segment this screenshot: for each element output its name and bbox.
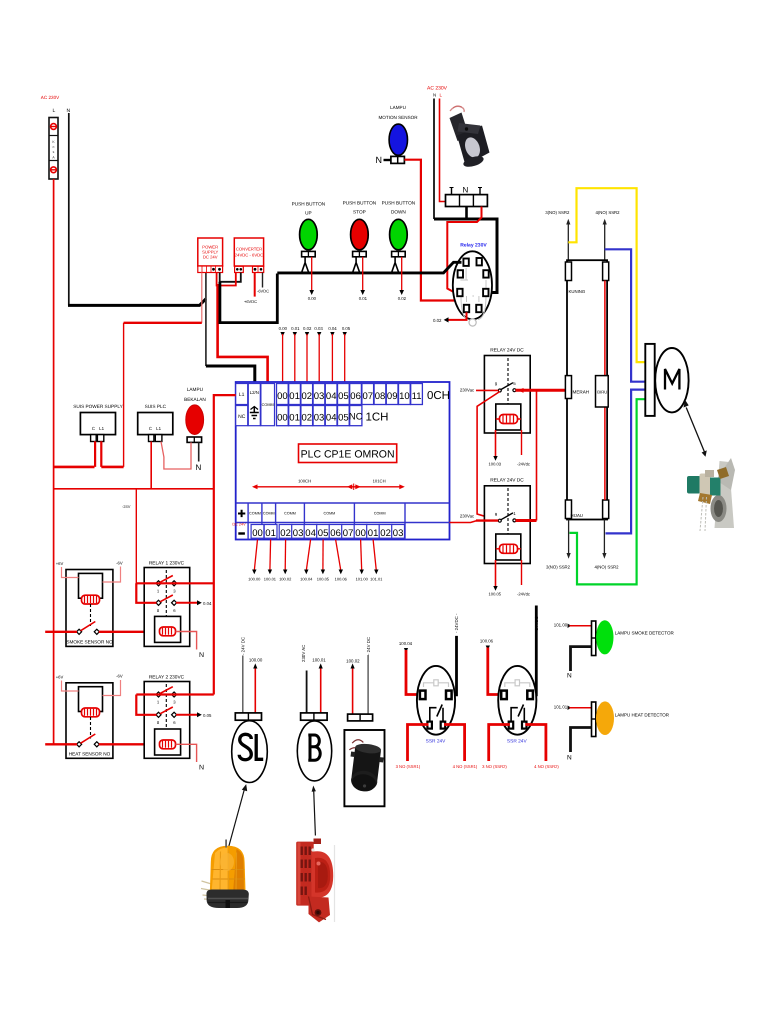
PLC output section grid bbox=[236, 503, 450, 540]
svg-text:1CH: 1CH bbox=[365, 411, 388, 423]
svg-text:3(NO) SSR2: 3(NO) SSR2 bbox=[546, 565, 571, 570]
svg-text:0.04: 0.04 bbox=[203, 601, 212, 606]
svg-text:100.06: 100.06 bbox=[480, 639, 494, 644]
PLC input cells row 0CH bbox=[277, 384, 451, 405]
wire converter -6VDC bbox=[262, 273, 264, 288]
wire relay2dc coil outputs bbox=[489, 560, 530, 597]
svg-text:N: N bbox=[567, 673, 572, 680]
svg-text:0.01: 0.01 bbox=[359, 296, 368, 301]
wire blue lower bbox=[606, 390, 646, 534]
svg-text:- 24VDC -: - 24VDC - bbox=[454, 613, 459, 633]
PLC COMM labels bottom bbox=[249, 512, 385, 516]
svg-text:06: 06 bbox=[330, 528, 341, 539]
wire bus y488 red bbox=[54, 442, 214, 489]
svg-text:LAMPU SMOKE DETECTOR: LAMPU SMOKE DETECTOR bbox=[615, 631, 675, 636]
buzzer photo bbox=[345, 739, 386, 793]
lampu heat detector bbox=[554, 701, 670, 761]
wire smoke 6V pink bbox=[62, 567, 121, 583]
svg-text:100.01: 100.01 bbox=[264, 577, 277, 582]
svg-text:11: 11 bbox=[412, 391, 422, 402]
motor M bbox=[655, 348, 688, 412]
SSR 24V unit 2 bbox=[480, 606, 539, 745]
svg-text:SMOKE SENSOR NO: SMOKE SENSOR NO bbox=[66, 640, 113, 645]
svg-text:DOWN: DOWN bbox=[391, 210, 406, 215]
svg-text:C: C bbox=[92, 426, 95, 431]
B lamp bbox=[297, 645, 331, 781]
svg-text:+6V: +6V bbox=[56, 675, 64, 680]
wire L red main left bus bbox=[53, 179, 55, 744]
wire yellow bbox=[568, 188, 645, 362]
wire 230vac to pin9 bbox=[476, 389, 498, 391]
svg-text:0.05: 0.05 bbox=[203, 713, 212, 718]
power supply DC 24V bbox=[198, 238, 223, 273]
wire relay1dc coil outputs bbox=[489, 430, 530, 467]
svg-text:-24Vdc: -24Vdc bbox=[517, 592, 530, 597]
svg-text:101.00: 101.00 bbox=[554, 623, 568, 628]
svg-text:RELAY 2 230VC: RELAY 2 230VC bbox=[149, 675, 185, 681]
wire heat row thick red bbox=[45, 743, 159, 745]
BIRU box bbox=[596, 376, 609, 407]
svg-text:100.00: 100.00 bbox=[248, 577, 261, 582]
svg-text:05: 05 bbox=[338, 412, 349, 423]
svg-text:COMM: COMM bbox=[262, 403, 274, 407]
svg-text:+6VDC: +6VDC bbox=[244, 299, 257, 304]
wire motion lamp to relay red bbox=[404, 160, 460, 301]
svg-text:03: 03 bbox=[314, 391, 325, 402]
svg-text:LAMPU HEAT DETECTOR: LAMPU HEAT DETECTOR bbox=[615, 713, 670, 718]
label 4(NO) SSR2 bottom bbox=[594, 520, 619, 570]
PLC name plate bbox=[299, 444, 397, 463]
arrow M to photo bbox=[684, 400, 707, 457]
svg-text:0.02: 0.02 bbox=[433, 318, 442, 323]
svg-text:3 NO (SSR2): 3 NO (SSR2) bbox=[482, 764, 507, 769]
svg-text:L1: L1 bbox=[99, 426, 104, 431]
svg-text:COMM: COMM bbox=[284, 512, 296, 516]
svg-text:03: 03 bbox=[393, 528, 404, 539]
RELAY 24V DC lower bbox=[484, 478, 530, 564]
PLC +/- cell bbox=[238, 510, 245, 534]
svg-text:HIJAU: HIJAU bbox=[571, 513, 583, 518]
svg-text:00: 00 bbox=[277, 412, 288, 423]
push button STOP bbox=[343, 201, 377, 302]
label 3(NO) SSR2 top bbox=[545, 210, 570, 260]
svg-text:07: 07 bbox=[343, 528, 354, 539]
terminal block motor bbox=[565, 260, 608, 519]
svg-text:02: 02 bbox=[380, 528, 391, 539]
svg-text:4 NO (SSR1): 4 NO (SSR1) bbox=[453, 764, 478, 769]
svg-text:101.01: 101.01 bbox=[554, 705, 568, 710]
svg-text:3 NO (SSR1): 3 NO (SSR1) bbox=[396, 764, 421, 769]
svg-text:PLC CP1E OMRON: PLC CP1E OMRON bbox=[301, 449, 395, 461]
svg-text:LAMPU: LAMPU bbox=[390, 105, 406, 110]
svg-text:-6VDC: -6VDC bbox=[257, 289, 269, 294]
svg-text:05: 05 bbox=[318, 528, 329, 539]
wire PS left terminal pink down bbox=[201, 273, 203, 323]
beacon photo bbox=[201, 840, 249, 909]
svg-text:00: 00 bbox=[252, 528, 263, 539]
PLC output cells bbox=[251, 525, 404, 539]
svg-text:DC 24V: DC 24V bbox=[203, 255, 218, 260]
svg-text:- 24V DC: - 24V DC bbox=[366, 637, 371, 655]
terminal motion lamp bbox=[391, 156, 405, 163]
wire strip to black bus bbox=[465, 207, 468, 220]
svg-text:RELAY 1 230VC: RELAY 1 230VC bbox=[149, 561, 185, 567]
motor terminal bar bbox=[645, 344, 654, 416]
svg-text:100.00: 100.00 bbox=[249, 658, 263, 663]
svg-text:-6V: -6V bbox=[116, 674, 123, 679]
svg-text:0.02: 0.02 bbox=[303, 326, 312, 331]
buzzer unit bbox=[344, 637, 384, 806]
svg-text:04: 04 bbox=[326, 412, 337, 423]
svg-text:PUSH BUTTON: PUSH BUTTON bbox=[343, 201, 377, 206]
svg-text:- 24VDC -: - 24VDC - bbox=[534, 613, 539, 633]
svg-text:00: 00 bbox=[277, 391, 288, 402]
svg-text:100.06: 100.06 bbox=[335, 577, 348, 582]
wire PLC outputs to labels bbox=[248, 540, 383, 582]
svg-text:SUIS PLC: SUIS PLC bbox=[145, 404, 167, 409]
PLC CP1E OMRON main box bbox=[236, 382, 450, 540]
svg-text:230Vac: 230Vac bbox=[460, 387, 475, 392]
node labels 0.00-0.05 PLC inputs bbox=[279, 326, 351, 337]
wire black bus to relay pin bbox=[434, 219, 497, 293]
svg-text:AC 230V: AC 230V bbox=[427, 86, 448, 92]
PLC terminal cell COMM bbox=[261, 384, 275, 426]
svg-text:100.03: 100.03 bbox=[489, 462, 502, 467]
RELAY 1 230VC bbox=[144, 561, 190, 647]
svg-text:RELAY 24V DC: RELAY 24V DC bbox=[490, 348, 524, 354]
svg-text:NC: NC bbox=[238, 414, 246, 420]
svg-text:100.05: 100.05 bbox=[489, 592, 502, 597]
svg-text:07: 07 bbox=[363, 391, 374, 402]
HEAT SENSOR NO bbox=[66, 683, 113, 759]
svg-text:05: 05 bbox=[338, 391, 349, 402]
PLC terminal cell L2/N with ground bbox=[248, 384, 260, 426]
svg-text:PUSH BUTTON: PUSH BUTTON bbox=[382, 201, 416, 206]
label LAMPU MOTION SENSOR bbox=[378, 105, 418, 120]
svg-text:4 NO (SSR2): 4 NO (SSR2) bbox=[534, 764, 559, 769]
wire blue upper bbox=[605, 249, 646, 381]
svg-text:COMM: COMM bbox=[249, 512, 261, 516]
svg-text:- 24V DC: - 24V DC bbox=[241, 637, 246, 655]
SUIS PLC bbox=[138, 404, 173, 442]
svg-text:-24Vdc: -24Vdc bbox=[517, 462, 530, 467]
svg-text:03: 03 bbox=[293, 528, 304, 539]
svg-text:N: N bbox=[463, 186, 469, 195]
wire suis plc to lampu red bbox=[161, 442, 191, 470]
svg-text:+6V: +6V bbox=[56, 561, 64, 566]
LAMPU BEKALAN bbox=[184, 387, 206, 442]
wire lampu bekalan N black bbox=[198, 442, 200, 461]
svg-text:0.02: 0.02 bbox=[398, 296, 407, 301]
PLC input cells row 1CH bbox=[277, 406, 389, 426]
motor photo bbox=[687, 458, 735, 531]
SSR 24V unit 1 bbox=[399, 613, 459, 745]
svg-text:0.01: 0.01 bbox=[291, 326, 300, 331]
svg-text:09: 09 bbox=[387, 391, 398, 402]
svg-text:N: N bbox=[433, 93, 436, 98]
svg-text:L1: L1 bbox=[156, 426, 161, 431]
label AC 230V left bbox=[41, 95, 71, 114]
svg-text:HEAT SENSOR NO: HEAT SENSOR NO bbox=[69, 752, 111, 757]
converter 24VDC-6VDC bbox=[234, 238, 263, 273]
wire pin1 to right vertical thick bbox=[516, 519, 537, 522]
wire bus y467 red bbox=[54, 466, 124, 469]
wire strip L to relay red bbox=[447, 207, 481, 294]
wire PS+ to converter red bbox=[217, 273, 236, 286]
wire right vertical red bbox=[536, 390, 538, 520]
svg-text:L1: L1 bbox=[239, 392, 245, 398]
lampu smoke detector bbox=[554, 620, 675, 679]
svg-text:COMM: COMM bbox=[324, 512, 336, 516]
wire green bbox=[570, 399, 646, 584]
svg-text:Relay 230V: Relay 230V bbox=[460, 243, 487, 249]
relay 230V socket bbox=[453, 251, 492, 326]
arrow B to siren bbox=[312, 786, 316, 836]
svg-text:SUIS POWER SUPPLY: SUIS POWER SUPPLY bbox=[73, 404, 123, 409]
svg-text:03: 03 bbox=[314, 412, 325, 423]
svg-text:0.00: 0.00 bbox=[279, 326, 288, 331]
svg-text:02: 02 bbox=[280, 528, 291, 539]
svg-text:02: 02 bbox=[302, 391, 313, 402]
wire PLC input stubs red bbox=[283, 334, 345, 382]
PLC terminal cell L1/NC bbox=[236, 384, 248, 426]
svg-text:101.00: 101.00 bbox=[356, 577, 369, 582]
svg-text:0.05: 0.05 bbox=[342, 326, 351, 331]
label 3(NO) SSR2 bottom bbox=[546, 520, 571, 570]
label 4(NO) SSR2 top bbox=[595, 210, 620, 260]
svg-text:MERAH: MERAH bbox=[573, 390, 590, 395]
svg-text:0.03: 0.03 bbox=[314, 326, 323, 331]
lamp motion sensor blue bbox=[389, 124, 407, 155]
svg-text:L2/N: L2/N bbox=[250, 390, 259, 395]
svg-text:4(NO) SSR2: 4(NO) SSR2 bbox=[595, 210, 620, 215]
svg-text:101.01: 101.01 bbox=[370, 577, 383, 582]
label AC 230V right bbox=[427, 86, 448, 98]
terminal strip 230V bbox=[446, 186, 488, 207]
svg-text:101CH: 101CH bbox=[373, 479, 386, 484]
push button UP bbox=[292, 202, 326, 302]
svg-text:N: N bbox=[376, 155, 383, 165]
svg-text:SSR 24V: SSR 24V bbox=[507, 739, 528, 745]
wire heat 6V pink bbox=[62, 680, 121, 696]
wire PS- to converter black U bbox=[220, 273, 241, 282]
wire pin9 diagonal down red bbox=[477, 392, 500, 521]
svg-text:01: 01 bbox=[368, 528, 379, 539]
svg-text:24VDC - 6VDC: 24VDC - 6VDC bbox=[235, 253, 263, 258]
svg-text:N: N bbox=[199, 652, 204, 659]
svg-text:NC: NC bbox=[349, 412, 363, 423]
svg-text:01: 01 bbox=[289, 412, 300, 423]
svg-text:0CH: 0CH bbox=[427, 390, 450, 402]
wire relay1 coil to N bbox=[176, 632, 197, 650]
fuse F1 bbox=[49, 118, 58, 180]
svg-text:01: 01 bbox=[289, 391, 300, 402]
wire sensor N black bbox=[433, 99, 435, 220]
motion sensor PIR photo bbox=[450, 106, 490, 169]
wire relay2 0.05 output bbox=[176, 712, 212, 718]
svg-text:230Vac: 230Vac bbox=[460, 514, 475, 519]
svg-text:N: N bbox=[199, 765, 204, 772]
svg-text:N: N bbox=[567, 755, 572, 762]
svg-text:100CH: 100CH bbox=[298, 479, 311, 484]
svg-text:L: L bbox=[53, 108, 56, 114]
svg-text:100.02: 100.02 bbox=[346, 659, 360, 664]
wire PLC to relay2 230Vac bbox=[450, 521, 477, 523]
svg-text:COMM: COMM bbox=[374, 512, 386, 516]
svg-text:STOP: STOP bbox=[353, 210, 366, 215]
svg-text:LAMPU: LAMPU bbox=[187, 387, 204, 392]
wire red inside block bbox=[604, 281, 606, 501]
svg-text:100.01: 100.01 bbox=[312, 658, 326, 663]
svg-text:-24V: -24V bbox=[122, 504, 131, 509]
wire -24V branch bbox=[124, 322, 202, 324]
svg-text:230V AC: 230V AC bbox=[301, 645, 306, 662]
wire relay1 230v contact feed bbox=[136, 583, 214, 603]
svg-text:00: 00 bbox=[355, 528, 366, 539]
svg-text:06: 06 bbox=[350, 391, 361, 402]
wire N black bbox=[68, 113, 70, 305]
svg-text:s: s bbox=[53, 150, 55, 154]
svg-text:o: o bbox=[53, 145, 55, 149]
push button DOWN bbox=[382, 201, 416, 302]
wire relay2 coil to N bbox=[176, 744, 197, 762]
svg-text:MOTION SENSOR: MOTION SENSOR bbox=[378, 115, 418, 120]
svg-text:RELAY 24V DC: RELAY 24V DC bbox=[490, 478, 524, 484]
svg-text:3(NO) SSR2: 3(NO) SSR2 bbox=[545, 210, 570, 215]
SUIS POWER SUPPLY bbox=[73, 404, 123, 442]
RELAY 24V DC upper bbox=[484, 348, 530, 434]
svg-text:10: 10 bbox=[399, 391, 410, 402]
svg-text:PUSH BUTTON: PUSH BUTTON bbox=[292, 202, 326, 207]
svg-text:N: N bbox=[196, 463, 202, 472]
svg-text:100.04: 100.04 bbox=[300, 577, 313, 582]
svg-text:-6V: -6V bbox=[116, 561, 123, 566]
svg-text:SSR 24V: SSR 24V bbox=[426, 739, 447, 745]
wire N stub bbox=[384, 159, 391, 161]
svg-text:100.02: 100.02 bbox=[279, 577, 292, 582]
wire relay feed vertical x136 bbox=[135, 489, 137, 603]
wire PS- down to push button bus black bbox=[220, 274, 277, 323]
wire -24V vertical to bus bbox=[123, 323, 125, 467]
wire relay2 230v contact feed bbox=[136, 695, 214, 715]
svg-text:AC 230V: AC 230V bbox=[41, 95, 60, 100]
wire 230vac to pin9 lower bbox=[476, 519, 498, 521]
svg-text:04: 04 bbox=[326, 391, 337, 402]
svg-text:UP: UP bbox=[305, 211, 312, 216]
wire L1 vertical feed red bbox=[214, 395, 236, 694]
wire SSR2 bottom outputs bbox=[482, 725, 559, 770]
svg-text:DC 24V: DC 24V bbox=[232, 522, 246, 526]
svg-text:4(NO) SSR2: 4(NO) SSR2 bbox=[594, 565, 619, 570]
wire PS+ to PLC COMM thick red bbox=[218, 284, 268, 382]
svg-text:CONVERTER: CONVERTER bbox=[236, 247, 262, 252]
span line 100CH/101CH bbox=[252, 479, 405, 491]
SMOKE SENSOR NO bbox=[66, 570, 113, 647]
wire push button main line black bbox=[277, 262, 461, 273]
arrow SL to beacon bbox=[229, 784, 248, 847]
svg-text:100.05: 100.05 bbox=[317, 577, 330, 582]
wire PS neutral to PLC L2/N bbox=[205, 273, 207, 367]
svg-text:0.04: 0.04 bbox=[328, 326, 337, 331]
svg-text:C: C bbox=[149, 426, 152, 431]
svg-text:KUNING: KUNING bbox=[569, 289, 586, 294]
svg-text:0.00: 0.00 bbox=[308, 296, 317, 301]
wire sensor L red bbox=[440, 99, 448, 202]
RELAY 2 230VC bbox=[144, 675, 190, 759]
svg-text:08: 08 bbox=[375, 391, 386, 402]
svg-text:COMM: COMM bbox=[263, 512, 275, 516]
wire SSR1 bottom outputs bbox=[396, 725, 478, 770]
svg-text:04: 04 bbox=[305, 528, 316, 539]
svg-text:BEKALAN: BEKALAN bbox=[184, 397, 206, 402]
svg-text:BIRU: BIRU bbox=[597, 390, 607, 395]
svg-text:100.04: 100.04 bbox=[399, 641, 413, 646]
wire pin5 to MERAH thick red bbox=[516, 388, 568, 393]
SL lamp bbox=[232, 637, 268, 783]
wire relay1 0.04 output bbox=[176, 600, 212, 606]
wire smoke row thick red bbox=[45, 631, 159, 633]
svg-text:02: 02 bbox=[302, 412, 313, 423]
svg-text:01: 01 bbox=[265, 528, 276, 539]
wire relay 0.02 output bbox=[433, 312, 467, 323]
siren photo bbox=[296, 839, 334, 923]
wire converter +6VDC bbox=[254, 273, 256, 297]
